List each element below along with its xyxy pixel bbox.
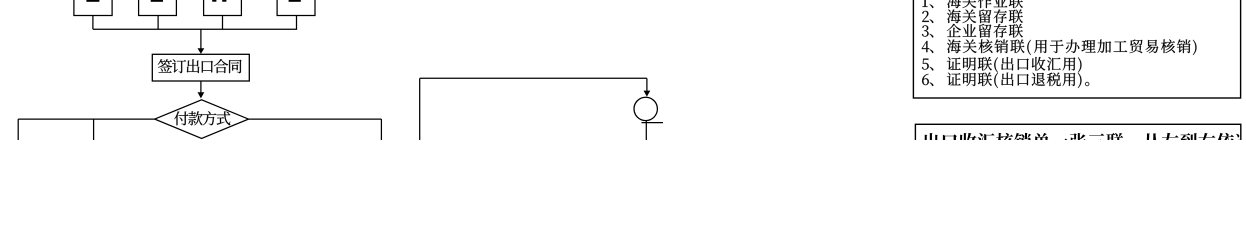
wire drop from B4 (296, 16, 298, 30)
note box: 出口收汇核销单 (bottom, cut off) (915, 124, 1240, 154)
wire bus to contract box (200, 29, 202, 48)
text fragment in box B1 (86, 0, 99, 2)
wire diamond right branch (249, 118, 382, 120)
wire left branch drop 1 (17, 119, 19, 141)
wire below connector circle (645, 121, 647, 142)
arrowhead into diamond (198, 92, 205, 98)
list line 3: 3、企业留存联 (922, 24, 1023, 38)
bus wire joining drops (93, 28, 297, 30)
text fragment in box B4 (289, 0, 301, 2)
wire contract box to diamond (200, 81, 202, 93)
decision diamond: payment method (155, 100, 249, 139)
process box B4 (top, cut off) (277, 0, 315, 16)
process box B2 (top, cut off) (139, 0, 177, 16)
text fragment in box B2 (151, 0, 163, 2)
process box B3 (top, cut off) (204, 0, 242, 16)
wire drop from B1 (92, 16, 94, 30)
label 付款方式 (174, 111, 230, 125)
process box: sign export contract (152, 54, 249, 81)
arrowhead into contract box (198, 48, 205, 54)
list line 2: 2、海关留存联 (922, 9, 1023, 23)
wire right branch drop (380, 119, 382, 141)
wire top run to connector circle (420, 77, 647, 79)
note box: declaration copies list (top cut off) (913, 0, 1240, 98)
wire left branch drop 2 (93, 119, 95, 141)
list line 4: 4、海关核销联(用于办理加工贸易核销) (922, 39, 1197, 55)
wire drop from B3 (222, 16, 224, 30)
list line 6: 6、证明联(出口退税用)。 (922, 73, 1089, 89)
process box B1 (top, cut off) (74, 0, 112, 16)
wire drop from B2 (157, 16, 159, 30)
list line 1: 1、海关作业联 (922, 0, 1023, 8)
text fragment in box B3 (212, 0, 226, 2)
wire riser at x420 (419, 78, 421, 141)
connector circle (634, 97, 657, 120)
list line 5: 5、证明联(出口收汇用) (922, 57, 1082, 73)
wire into connector circle (646, 78, 648, 91)
label 签订出口合同 (158, 59, 242, 73)
arrowhead into connector circle (644, 91, 651, 97)
wire diamond left branch (18, 118, 155, 120)
tick below connector circle (642, 122, 664, 124)
